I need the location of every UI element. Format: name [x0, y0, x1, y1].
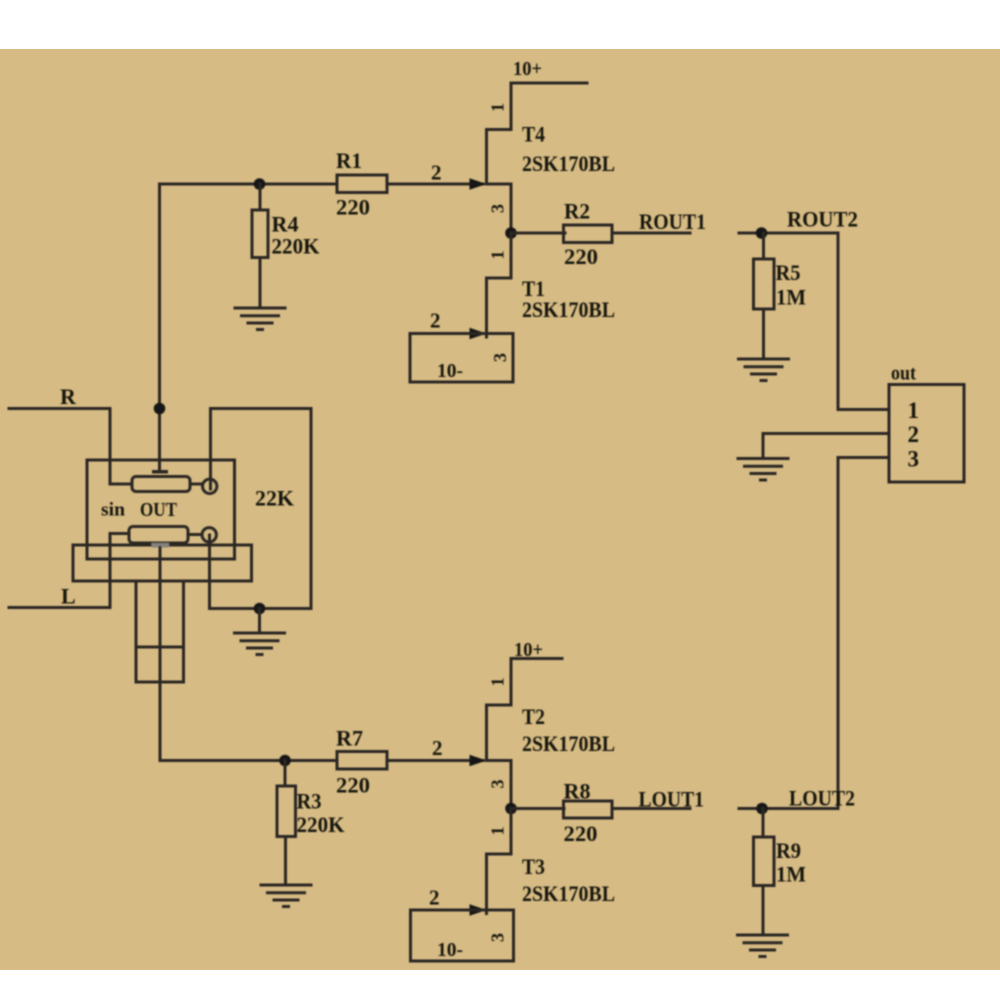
pin number 3 T2 source	[488, 780, 508, 789]
node junction dot on center tap	[154, 403, 166, 415]
pin number 1 T2 drain	[488, 678, 508, 687]
wire pin3 to LOUT2 vertical	[837, 458, 840, 809]
svg-text:2: 2	[431, 161, 442, 185]
svg-text:1: 1	[488, 678, 508, 687]
svg-text:OUT: OUT	[140, 499, 178, 521]
transistor T1 part number	[522, 297, 615, 322]
resistor R2 value 220	[564, 244, 598, 269]
transistor T1 2SK170BL	[487, 233, 512, 337]
pin label 2 T3 gate	[429, 886, 440, 910]
svg-text:T3: T3	[522, 854, 545, 879]
resistor R2 body	[564, 225, 613, 243]
svg-text:2SK170BL: 2SK170BL	[522, 881, 615, 906]
potentiometer label sin	[101, 500, 125, 521]
svg-text:3: 3	[490, 353, 510, 362]
svg-text:220: 220	[336, 773, 370, 798]
resistor R7 body	[337, 752, 387, 770]
svg-text:10-: 10-	[437, 939, 463, 961]
wire wiper B circle to routing	[208, 535, 211, 609]
node junction dot R3 tap	[279, 755, 291, 767]
pin number 1 T1 drain	[488, 251, 508, 260]
node label LOUT1	[639, 787, 705, 812]
connector out label	[891, 363, 916, 385]
wire L input horizontal	[9, 606, 110, 609]
resistor R8 body	[564, 801, 613, 818]
svg-text:3: 3	[488, 933, 508, 942]
wire R7 to T2 gate	[387, 759, 483, 762]
resistor R1 value 220	[336, 195, 370, 220]
connector pin 2	[908, 422, 920, 447]
wire R4 bottom lead	[259, 258, 262, 309]
svg-text:220K: 220K	[297, 812, 345, 837]
resistor R1 label	[336, 148, 362, 173]
svg-text:3: 3	[908, 447, 920, 472]
wire pot ground stem	[258, 609, 261, 634]
node junction dot LOUT2	[756, 803, 768, 815]
connector plug right wall	[182, 581, 185, 647]
T1 gate arrowhead	[470, 328, 487, 340]
resistor R8 label	[564, 779, 591, 804]
svg-text:R9: R9	[776, 838, 801, 863]
wiper B contact bar	[152, 543, 170, 548]
T2 gate arrowhead	[470, 755, 487, 767]
svg-text:out: out	[891, 363, 916, 385]
wire pot routing top horizontal	[211, 407, 312, 410]
resistor R1 body	[337, 175, 387, 193]
transistor T2 part number	[522, 731, 615, 756]
connector plug box	[136, 647, 184, 682]
potentiometer label OUT	[140, 499, 178, 521]
resistor R4 label	[272, 212, 299, 237]
svg-text:220: 220	[564, 244, 598, 269]
svg-text:2: 2	[908, 422, 920, 447]
potentiometer element B (bottom)	[129, 527, 188, 544]
svg-text:R5: R5	[776, 260, 801, 285]
svg-text:2: 2	[432, 736, 443, 760]
resistor R5 label	[776, 260, 801, 285]
ground R5	[739, 359, 789, 381]
svg-text:1M: 1M	[776, 285, 806, 310]
svg-text:ROUT1: ROUT1	[639, 209, 706, 234]
svg-text:3: 3	[488, 204, 508, 213]
resistor R3 value 220K	[297, 812, 345, 837]
node junction dot pot ground	[254, 603, 266, 615]
node junction dot R4 tap	[254, 178, 266, 190]
svg-text:R2: R2	[564, 199, 590, 224]
resistor R8 value 220	[564, 821, 598, 846]
svg-text:2SK170BL: 2SK170BL	[522, 151, 615, 176]
pin number 1 T3 drain	[488, 827, 508, 836]
wire R9 top lead	[762, 809, 765, 838]
potentiometer element A (top)	[132, 477, 190, 492]
wire LOUT2 row	[739, 807, 838, 810]
wire R9 bottom lead	[762, 886, 765, 936]
potentiometer value 22K	[255, 486, 294, 511]
wiper A contact bar	[152, 470, 168, 474]
resistor R4 body	[252, 210, 268, 258]
wiper terminal circle B	[202, 528, 216, 542]
svg-text:10+: 10+	[513, 58, 542, 80]
pin label 2 T1 gate	[430, 309, 441, 333]
wire R5 top lead	[762, 233, 765, 259]
power label 10+ for T2	[514, 639, 543, 661]
svg-text:R: R	[60, 384, 77, 409]
node label LOUT2	[789, 786, 855, 811]
resistor R3 body	[277, 786, 296, 837]
battery 10- box (T3)	[411, 910, 514, 961]
wire L input vertical	[109, 534, 112, 608]
wire R input vertical	[109, 409, 112, 485]
wire R2 to ROUT1	[612, 232, 690, 235]
wire R3 top lead	[284, 761, 287, 787]
wire pin2 ground stem	[762, 434, 765, 459]
node label ROUT1	[639, 209, 706, 234]
node junction dot ROUT2	[756, 227, 768, 239]
svg-text:LOUT2: LOUT2	[789, 786, 855, 811]
pin number 1 T4 drain	[488, 103, 508, 112]
potentiometer base plate	[73, 545, 252, 581]
ground R3	[261, 885, 311, 907]
ground out pin2	[738, 459, 788, 481]
battery 10- box (T1)	[410, 334, 513, 383]
potentiometer VR1 body box	[87, 460, 235, 559]
resistor R9 body	[754, 837, 775, 886]
wire out pin2 horizontal	[763, 432, 889, 435]
transistor T3 designator	[522, 854, 545, 879]
transistor T3 part number	[522, 881, 615, 906]
transistor T2 designator	[522, 704, 545, 729]
svg-text:1: 1	[908, 398, 920, 423]
connector plug left wall	[135, 581, 138, 647]
svg-text:1M: 1M	[776, 862, 806, 887]
svg-text:R1: R1	[336, 148, 362, 173]
transistor T4 part number	[522, 151, 615, 176]
wire out pin1 horizontal	[838, 408, 889, 411]
resistor R2 label	[564, 199, 590, 224]
transistor T4 designator	[522, 122, 545, 147]
wire R1 to T4 gate	[387, 183, 483, 186]
connector pin 1	[908, 398, 920, 423]
svg-text:2: 2	[429, 886, 440, 910]
transistor T3 2SK170BL	[487, 809, 512, 914]
power label 10+ for T4	[513, 58, 542, 80]
svg-text:T4: T4	[522, 122, 545, 147]
svg-text:sin: sin	[101, 500, 125, 521]
svg-text:220K: 220K	[272, 234, 320, 259]
svg-text:2SK170BL: 2SK170BL	[522, 297, 615, 322]
svg-text:1: 1	[488, 827, 508, 836]
svg-text:T2: T2	[522, 704, 545, 729]
svg-text:10-: 10-	[437, 360, 463, 382]
connector pin 3	[908, 447, 920, 472]
svg-text:R3: R3	[297, 789, 322, 814]
wire T2 drain rail	[511, 657, 562, 660]
pin label 2 T4 gate	[431, 161, 442, 185]
transistor T4 2SK170BL	[487, 83, 512, 233]
wire L to pot bottom element lead	[110, 532, 129, 535]
wire element B right lead	[188, 533, 202, 536]
svg-text:LOUT1: LOUT1	[639, 787, 705, 812]
wire L-channel row	[160, 759, 337, 762]
resistor R3 label	[297, 789, 322, 814]
resistor R5 value 1M	[776, 285, 806, 310]
wire R5 bottom lead	[762, 309, 765, 359]
wire center tap vertical from node to wiper A	[158, 184, 161, 470]
wire wiper A stem into circle	[209, 409, 212, 490]
wire wiper B stem down to LOUT row	[159, 548, 162, 761]
resistor R7 label	[336, 726, 363, 751]
pin label 2 T2 gate	[432, 736, 443, 760]
battery 10- label (T3)	[437, 939, 463, 961]
node junction dot T4/T1	[505, 227, 517, 239]
wire ROUT2 to out pin1 vertical	[837, 233, 840, 410]
node junction dot T2/T3	[505, 803, 517, 815]
svg-text:3: 3	[488, 780, 508, 789]
T3 gate arrowhead	[470, 904, 487, 916]
wire node to R8	[511, 807, 564, 810]
resistor R4 value 220K	[272, 234, 320, 259]
connector out box	[889, 385, 964, 483]
pin number 3 T4 source	[488, 204, 508, 213]
wire R to pot top element lead	[110, 483, 132, 486]
svg-text:1: 1	[488, 103, 508, 112]
svg-text:2: 2	[430, 309, 441, 333]
svg-text:1: 1	[488, 251, 508, 260]
wire R-channel top rail	[160, 183, 338, 186]
wire pot routing right vertical	[310, 409, 313, 609]
svg-text:2SK170BL: 2SK170BL	[522, 731, 615, 756]
svg-text:22K: 22K	[255, 486, 294, 511]
svg-text:220: 220	[336, 195, 370, 220]
svg-text:ROUT2: ROUT2	[787, 207, 858, 232]
wire R3 bottom lead	[284, 837, 287, 886]
svg-text:R7: R7	[336, 726, 363, 751]
resistor R5 body	[754, 259, 775, 309]
wire node to R2	[511, 232, 565, 235]
node label ROUT2	[787, 207, 858, 232]
pin number 3 in box (T1)	[490, 353, 510, 362]
resistor R9 value 1M	[776, 862, 806, 887]
wire R8 to LOUT1	[612, 807, 690, 810]
ground pot	[235, 633, 285, 655]
node L input label	[61, 584, 76, 609]
wire pot routing bottom horizontal	[210, 607, 312, 610]
wiper terminal circle A	[203, 479, 217, 493]
ground R4	[235, 308, 285, 330]
resistor R7 value 220	[336, 773, 370, 798]
wire R4 top lead	[259, 184, 262, 210]
transistor T1 designator	[522, 276, 545, 301]
svg-text:L: L	[61, 584, 76, 609]
node R input label	[60, 384, 77, 409]
resistor R9 label	[776, 838, 801, 863]
wire ROUT2 row	[739, 232, 838, 235]
svg-text:220: 220	[564, 821, 598, 846]
ground R9	[738, 935, 788, 957]
wire element A right lead	[190, 483, 203, 486]
wire out pin3 horizontal	[838, 456, 889, 459]
T4 gate arrowhead	[470, 178, 487, 190]
transistor T2 2SK170BL	[487, 659, 512, 809]
battery 10- label (T1)	[437, 360, 463, 382]
wire R input horizontal	[9, 407, 110, 410]
pin number 3 in box (T3)	[488, 933, 508, 942]
wire T4 drain rail	[511, 82, 587, 85]
